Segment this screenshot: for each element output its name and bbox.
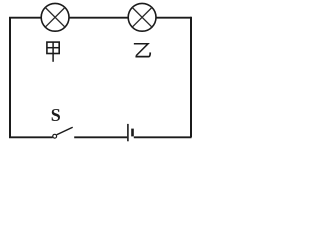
wire: bottom left segment (9, 136, 53, 138)
battery short plate (131, 129, 134, 137)
wire: bottom middle segment (74, 136, 127, 138)
wire: top right segment (156, 17, 192, 19)
switch S blade (57, 127, 73, 135)
wire: bottom right segment (134, 136, 192, 138)
label 乙 (135, 44, 151, 57)
switch S pivot (53, 134, 57, 138)
lamp 乙 circle (128, 3, 156, 31)
wire: left vertical (9, 18, 11, 138)
wire: right vertical (190, 17, 192, 138)
battery long plate (127, 124, 129, 141)
svg-text:S: S (51, 105, 61, 125)
lamp 甲 cross (45, 8, 65, 28)
wire: top left segment (9, 17, 41, 19)
label 甲 (47, 42, 59, 62)
wire: top middle segment (69, 17, 128, 19)
lamp 甲 circle (41, 3, 69, 31)
lamp 乙 cross (132, 8, 152, 28)
